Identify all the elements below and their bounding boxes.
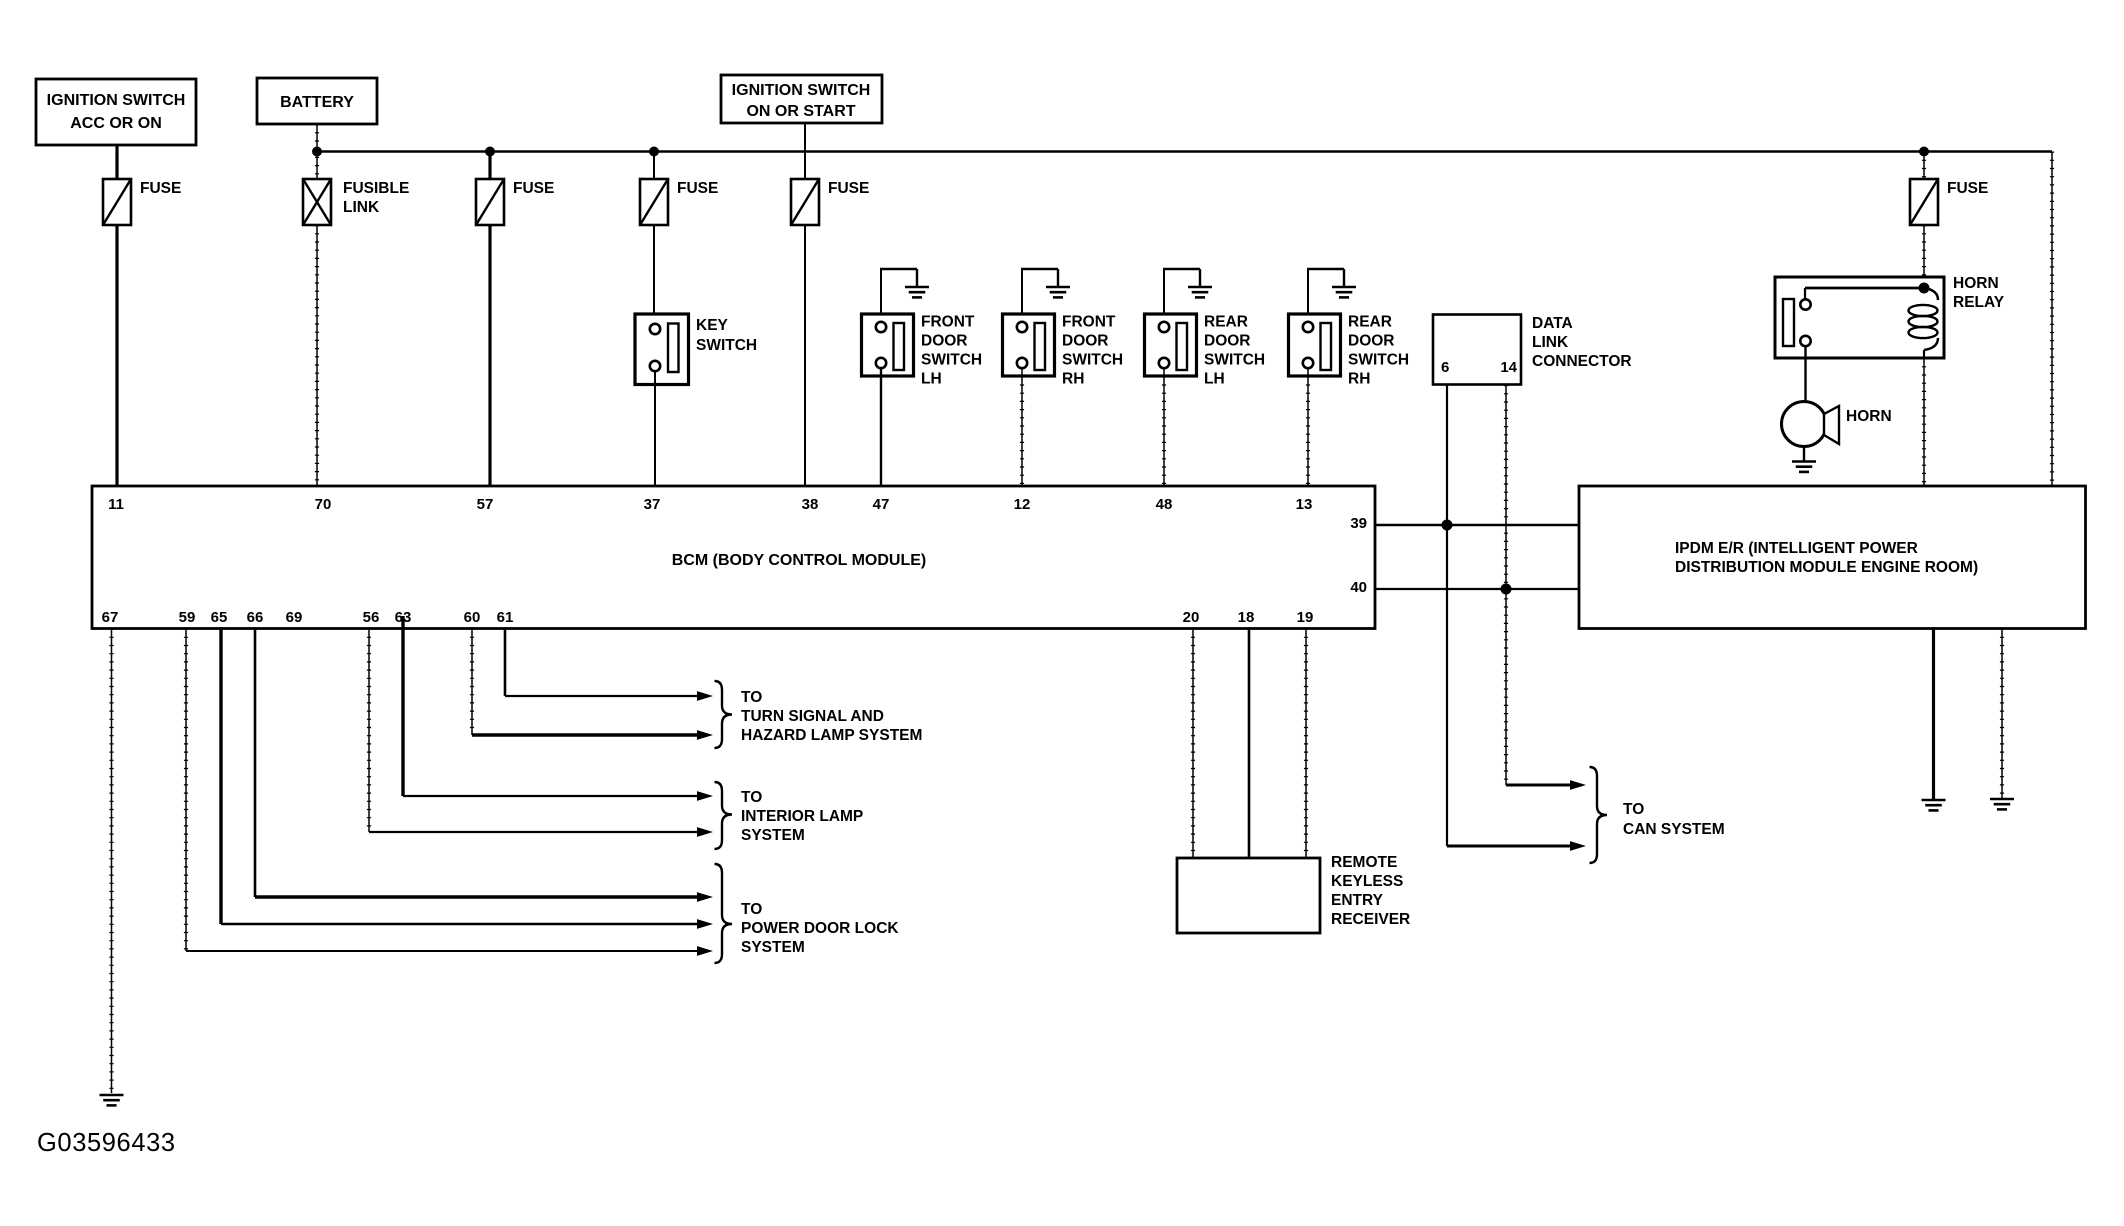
svg-text:LINK: LINK [343,199,380,216]
svg-text:RH: RH [1348,371,1370,388]
svg-text:RECEIVER: RECEIVER [1331,911,1410,928]
svg-text:56: 56 [363,609,380,626]
svg-text:FRONT: FRONT [1062,314,1116,331]
svg-text:60: 60 [464,609,481,626]
svg-text:38: 38 [802,496,819,513]
svg-text:39: 39 [1350,515,1367,532]
svg-text:FUSE: FUSE [828,180,869,197]
svg-text:HORN: HORN [1953,275,1999,292]
svg-text:ON OR START: ON OR START [746,103,855,120]
svg-text:65: 65 [211,609,228,626]
svg-text:RELAY: RELAY [1953,294,2005,311]
svg-text:66: 66 [247,609,264,626]
svg-text:FRONT: FRONT [921,314,975,331]
svg-text:SWITCH: SWITCH [696,337,757,354]
svg-text:DISTRIBUTION MODULE ENGINE ROO: DISTRIBUTION MODULE ENGINE ROOM) [1675,559,1978,576]
svg-text:LH: LH [1204,371,1225,388]
svg-text:LINK: LINK [1532,334,1569,351]
svg-text:DATA: DATA [1532,315,1573,332]
svg-text:ENTRY: ENTRY [1331,892,1384,909]
svg-text:61: 61 [497,609,514,626]
svg-text:SYSTEM: SYSTEM [741,827,805,844]
svg-text:TO: TO [741,789,762,806]
svg-text:HORN: HORN [1846,408,1892,425]
svg-text:DOOR: DOOR [921,333,968,350]
svg-text:RH: RH [1062,371,1084,388]
svg-text:G03596433: G03596433 [37,1129,176,1157]
svg-text:BATTERY: BATTERY [280,94,354,111]
svg-text:TO: TO [1623,801,1644,818]
svg-text:SWITCH: SWITCH [1062,352,1123,369]
svg-text:IPDM E/R (INTELLIGENT POWER: IPDM E/R (INTELLIGENT POWER [1675,540,1918,557]
svg-text:TURN SIGNAL AND: TURN SIGNAL AND [741,708,884,725]
svg-text:57: 57 [477,496,494,513]
svg-text:37: 37 [644,496,661,513]
svg-text:67: 67 [102,609,119,626]
svg-text:13: 13 [1296,496,1313,513]
svg-text:DOOR: DOOR [1062,333,1109,350]
svg-text:14: 14 [1500,359,1517,376]
svg-text:FUSE: FUSE [1947,180,1988,197]
svg-text:SYSTEM: SYSTEM [741,939,805,956]
svg-text:INTERIOR LAMP: INTERIOR LAMP [741,808,863,825]
svg-text:TO: TO [741,901,762,918]
svg-text:KEY: KEY [696,317,729,334]
svg-text:40: 40 [1350,579,1367,596]
svg-text:POWER DOOR LOCK: POWER DOOR LOCK [741,920,899,937]
svg-text:47: 47 [873,496,890,513]
svg-text:SWITCH: SWITCH [1204,352,1265,369]
svg-text:FUSIBLE: FUSIBLE [343,180,409,197]
svg-text:19: 19 [1297,609,1314,626]
svg-text:69: 69 [286,609,303,626]
svg-text:REAR: REAR [1348,314,1392,331]
svg-text:59: 59 [179,609,196,626]
svg-text:FUSE: FUSE [513,180,554,197]
svg-text:6: 6 [1441,359,1449,376]
svg-text:DOOR: DOOR [1348,333,1395,350]
svg-text:DOOR: DOOR [1204,333,1251,350]
svg-text:CAN SYSTEM: CAN SYSTEM [1623,821,1725,838]
svg-text:HAZARD LAMP SYSTEM: HAZARD LAMP SYSTEM [741,727,922,744]
svg-text:ACC OR ON: ACC OR ON [70,115,162,132]
svg-text:IGNITION SWITCH: IGNITION SWITCH [732,82,871,99]
svg-text:20: 20 [1183,609,1200,626]
svg-text:REAR: REAR [1204,314,1248,331]
svg-text:18: 18 [1238,609,1255,626]
svg-text:FUSE: FUSE [140,180,181,197]
svg-text:12: 12 [1014,496,1031,513]
svg-text:IGNITION SWITCH: IGNITION SWITCH [47,92,186,109]
svg-text:11: 11 [108,496,124,513]
svg-text:SWITCH: SWITCH [921,352,982,369]
svg-text:SWITCH: SWITCH [1348,352,1409,369]
svg-text:48: 48 [1156,496,1173,513]
svg-text:BCM (BODY CONTROL MODULE): BCM (BODY CONTROL MODULE) [672,552,927,569]
svg-text:KEYLESS: KEYLESS [1331,873,1403,890]
svg-text:REMOTE: REMOTE [1331,854,1397,871]
svg-text:FUSE: FUSE [677,180,718,197]
svg-text:70: 70 [315,496,332,513]
svg-text:LH: LH [921,371,942,388]
svg-text:CONNECTOR: CONNECTOR [1532,353,1632,370]
svg-text:TO: TO [741,689,762,706]
